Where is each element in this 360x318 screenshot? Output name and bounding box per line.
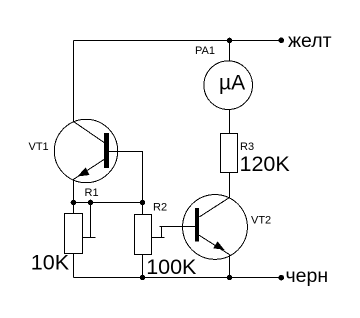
wire VT1 emitter down: [73, 179, 75, 203]
node top junction: [227, 38, 233, 44]
wire R2 bottom stub: [142, 255, 144, 278]
svg-text:черн: черн: [286, 265, 329, 287]
wire R1 bottom stub: [73, 254, 75, 278]
wire VT1 base lead: [109, 152, 143, 203]
terminal желт dot: [279, 38, 285, 44]
wire PA1 top: [229, 41, 231, 62]
wire VT1 collector vertical: [73, 41, 75, 122]
svg-text:10K: 10K: [31, 250, 70, 274]
svg-text:R1: R1: [85, 187, 99, 199]
wire R3 top: [229, 110, 231, 134]
transistor VT2: [183, 195, 248, 260]
wire R2 top stub: [142, 203, 144, 215]
wire R2 wiper to VT2 base: [152, 237, 165, 239]
wire VT2 collector up: [229, 173, 231, 198]
svg-text:100K: 100K: [146, 255, 197, 279]
resistor R3 body: [221, 134, 238, 173]
wire junction rail: [74, 202, 143, 204]
wire R1 wiper tap: [90, 203, 92, 238]
svg-text:120K: 120K: [240, 152, 291, 176]
svg-text:VT2: VT2: [251, 215, 271, 227]
terminal черн dot: [279, 275, 285, 281]
wire VT2 emitter down: [229, 255, 231, 278]
node R2 bottom: [140, 275, 146, 281]
wire top rail: [74, 40, 282, 42]
resistor R1 body: [65, 214, 83, 254]
wire bottom rail: [74, 277, 282, 279]
node VT2 emitter bottom: [227, 275, 233, 281]
svg-text:VT1: VT1: [29, 141, 49, 153]
node R1 wiper: [88, 200, 94, 206]
meter PA1: [204, 61, 253, 110]
svg-text:R2: R2: [153, 202, 167, 214]
resistor R2 body: [135, 215, 152, 255]
wire R1 top stub: [73, 203, 75, 214]
svg-text:µA: µA: [219, 72, 245, 95]
node emitter-R1: [71, 200, 77, 206]
transistor VT1: [54, 119, 117, 182]
svg-text:PA1: PA1: [195, 45, 215, 57]
svg-text:желт: желт: [288, 30, 332, 52]
node base-R2: [140, 200, 146, 206]
